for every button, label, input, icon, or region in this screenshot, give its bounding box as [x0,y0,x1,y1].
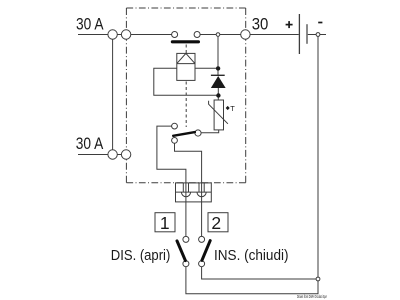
dashed enclosure box bottom edge [126,182,245,184]
mechanical link coil to main contact (dashed) [185,45,187,54]
wire coil right terminal [195,67,218,69]
switch S2 INS blade [202,241,210,261]
thermistor label diamond [226,106,230,110]
wire thermistor bottom to aux common [201,130,219,133]
aux switch contact NC [172,123,178,129]
aux switch common contact [195,130,201,136]
dashed enclosure box left edge [125,8,127,183]
label box pin 1 [155,213,175,232]
wire diode cathode to thermistor top [217,88,219,100]
svg-text:1: 1 [160,213,170,233]
junction node C: coil left / diode anode / thermistor [216,93,220,97]
battery BT1 plus plate [298,14,300,54]
switch S1 DIS top contact [183,236,189,242]
node D bottom junction [316,277,320,281]
wire relay contact to node A [200,34,216,36]
dashed enclosure box right edge [245,8,247,183]
junction node: coil right / diode cathode [216,66,220,70]
connector pin 1 blades [182,183,184,192]
wire switch S2 to node D [202,267,316,279]
relay main contact bridge bar [172,40,198,43]
svg-text:30 A: 30 A [76,135,104,153]
svg-text:Drawn from DWH Osculati SpA: Drawn from DWH Osculati SpA [297,294,327,300]
svg-text:DIS. (apri): DIS. (apri) [111,247,171,264]
wire stub right of node B [320,34,326,36]
battery plus sign [286,21,293,28]
wire node A to terminal 30 [220,34,241,36]
connector pin 2 blades [198,183,200,192]
wire battery minus to node B [308,34,316,36]
fuse terminal F1a right circle on box edge [121,30,130,39]
aux switch blade [173,132,195,136]
switch S2 INS top contact [199,236,205,242]
relay main contact terminal left [172,32,178,38]
svg-text:30 A: 30 A [76,16,104,34]
wire node A down to coil junction and diode anode [217,36,219,75]
fuse terminal F1b left circle [108,150,117,159]
switch S1 DIS bottom contact [183,261,189,267]
relay coil K1 [177,53,195,80]
node B battery negative [316,33,320,37]
node A [216,33,220,37]
wire terminal 30 to battery plus [250,34,298,36]
label box pin 2 [208,213,228,232]
dashed enclosure box top edge [126,7,245,9]
wire supply rail to fuse terminals F1b [78,154,127,156]
svg-text:T: T [230,104,235,113]
wire switch S1 to battery negative bus [186,267,318,294]
thermistor RT1 [209,100,228,130]
terminal 30 circle [241,30,250,39]
relay main contact terminal right [194,32,200,38]
switch S2 INS bottom contact [199,261,205,267]
mechanical link coil to aux switch (dashed) [185,82,187,128]
diode D1 [211,75,225,87]
connector block J1 [176,183,212,202]
wire battery negative bus vertical [317,37,319,278]
svg-text:30: 30 [252,14,269,33]
svg-text:2: 2 [211,213,221,233]
fuse terminal F1a left circle [108,30,117,39]
battery minus sign [318,22,322,24]
fuse terminal F1b right circle on box edge [121,150,130,159]
battery BT1 minus plate [306,24,308,44]
wire aux contact NO to connector pin 2 [175,143,202,236]
wire fuse link vertical F1a to F1b [112,40,114,150]
wire aux contact NC to connector pin 1 [157,126,186,236]
connector socket 1 cup [181,192,190,197]
wire supply rail through fuse terminals F1a [78,34,172,36]
switch S1 DIS blade [177,241,185,261]
wire coil left terminal around to node C [154,68,219,95]
aux switch contact NO [172,138,178,144]
connector socket 2 cup [197,192,206,197]
svg-text:INS. (chiudi): INS. (chiudi) [214,247,289,264]
